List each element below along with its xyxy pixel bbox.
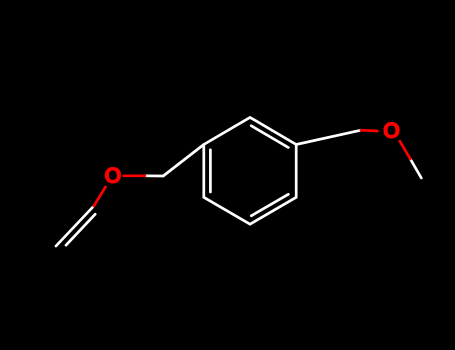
svg-text:O: O	[104, 163, 121, 188]
svg-text:O: O	[383, 118, 400, 143]
